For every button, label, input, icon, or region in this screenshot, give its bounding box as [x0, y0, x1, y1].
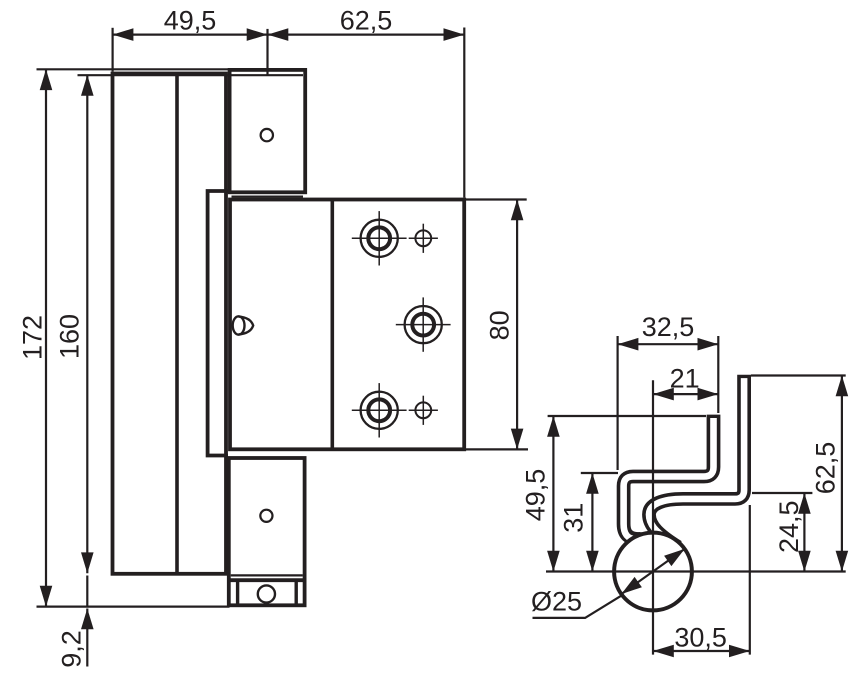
arrow 49,5 left: [113, 28, 134, 41]
dimension line 30,5: [653, 650, 750, 652]
frame leaf center groove line: [175, 74, 179, 574]
arrow 49,5R top: [547, 416, 560, 437]
svg-text:Ø25: Ø25: [531, 587, 582, 617]
diameter arrow head lower: [621, 577, 642, 594]
arrow 9,2: [81, 609, 94, 630]
arrow 62,5R top: [836, 376, 849, 397]
sash knuckle edge step: [208, 191, 228, 456]
svg-text:172: 172: [18, 315, 48, 360]
svg-text:160: 160: [55, 314, 85, 359]
arrow 62,5 right: [444, 28, 465, 41]
svg-text:9,2: 9,2: [57, 630, 87, 668]
lower knuckle bracket outline: [229, 458, 305, 605]
extension line 32,5/21 right: [717, 336, 719, 413]
dimension tail 9,2: [86, 609, 88, 667]
svg-text:49,5: 49,5: [164, 5, 217, 35]
thin top edge line: [37, 68, 230, 70]
profile center line vertical: [652, 380, 654, 654]
dimension line 49,5 / 62,5: [113, 33, 465, 35]
arrow 160 top: [81, 75, 94, 96]
extension line 80 top: [466, 198, 527, 200]
lower bracket pin hole: [260, 510, 272, 522]
foot inner wall left: [236, 580, 239, 605]
svg-text:80: 80: [485, 310, 515, 340]
thin line under upper bracket: [232, 196, 304, 198]
arrow 49,5R bottom: [547, 551, 560, 572]
arrow 21 right: [698, 388, 719, 401]
extension line bottom 172: [37, 605, 230, 607]
pin hole top-right: [415, 230, 431, 246]
dimension line 9,2 gap: [86, 576, 88, 607]
arrow 62,5R bottom: [836, 551, 849, 572]
arrow 80 bottom: [511, 429, 524, 450]
extension line 30,5 right: [749, 505, 751, 655]
arrow 30,5 left: [653, 645, 674, 658]
dimension line 31: [591, 473, 593, 572]
arrow 49,5 right: [247, 28, 268, 41]
profile sash-side arm (bore): [649, 378, 744, 539]
svg-text:21: 21: [670, 363, 700, 393]
profile frame-side wall (outer): [624, 415, 714, 539]
thin plate-top extension line: [78, 74, 304, 76]
extension line right 62,5: [463, 28, 465, 198]
extension line 62,5 top: [751, 374, 846, 376]
arrow 160 bottom: [81, 552, 94, 573]
dimension line 172: [45, 69, 47, 606]
svg-text:24,5: 24,5: [774, 500, 804, 553]
svg-text:62,5: 62,5: [340, 5, 393, 35]
sash leaf plate outline: [230, 200, 464, 450]
arrow 32,5 left: [618, 338, 639, 351]
foot roller: [258, 585, 275, 602]
profile frame-side wall hook cap: [633, 532, 647, 546]
upper bracket pin hole: [261, 129, 273, 141]
extension line 32,5 left: [616, 336, 618, 470]
screw hole bottom-left: [361, 392, 398, 429]
thin line above foot: [231, 574, 303, 576]
dimension line 32,5: [618, 343, 719, 345]
dimension line 21: [653, 393, 718, 395]
extension line 80 bottom: [466, 448, 528, 450]
arrow 31 bottom: [586, 551, 599, 572]
arrow 21 left: [653, 388, 674, 401]
hinge axis extension: [266, 29, 268, 75]
profile sash-side arm (outer): [649, 375, 744, 547]
dimension line 24,5: [803, 493, 805, 572]
leader line Ø25: [533, 594, 624, 618]
svg-text:30,5: 30,5: [674, 623, 727, 653]
arrow 172 top: [40, 69, 53, 90]
extension line 31: [581, 472, 618, 474]
sash plate fold line: [330, 200, 334, 450]
upper knuckle bracket outline: [230, 70, 306, 192]
svg-text:62,5: 62,5: [811, 442, 841, 495]
extension line 49,5 top: [548, 415, 706, 417]
pin hole bottom-right: [415, 402, 431, 418]
extension line 24,5: [752, 492, 812, 494]
svg-text:31: 31: [558, 503, 588, 533]
extension line left 49,5: [111, 28, 113, 72]
arrow 80 top: [511, 200, 524, 221]
foot top edge: [227, 578, 306, 582]
foot inner wall right: [295, 580, 298, 605]
arrow 24,5 bottom: [798, 551, 811, 572]
dimension line 160: [86, 75, 88, 573]
dimension line 49,5 right view: [552, 416, 554, 572]
arrow 30,5 right: [729, 645, 750, 658]
diameter arrow head upper: [664, 549, 685, 566]
arrow 24,5 top: [798, 493, 811, 514]
profile center line horizontal: [546, 570, 846, 572]
diameter arrow shaft: [621, 549, 684, 594]
svg-text:49,5: 49,5: [521, 469, 551, 522]
frame leaf plate outline: [113, 74, 227, 574]
hinge barrel circle: [614, 533, 692, 611]
screw hole top-left: [361, 220, 398, 257]
sash plate side pin: [233, 316, 245, 334]
profile frame-side wall (bore): [624, 418, 714, 539]
arrow 172 bottom: [40, 586, 53, 607]
arrow 31 top: [586, 473, 599, 494]
screw hole middle: [405, 306, 442, 343]
dimension line 80: [516, 200, 518, 450]
svg-text:32,5: 32,5: [642, 312, 695, 342]
arrow 32,5 right: [698, 338, 719, 351]
dimension line 62,5 right view: [841, 376, 843, 572]
arrow 62,5 left: [268, 28, 289, 41]
